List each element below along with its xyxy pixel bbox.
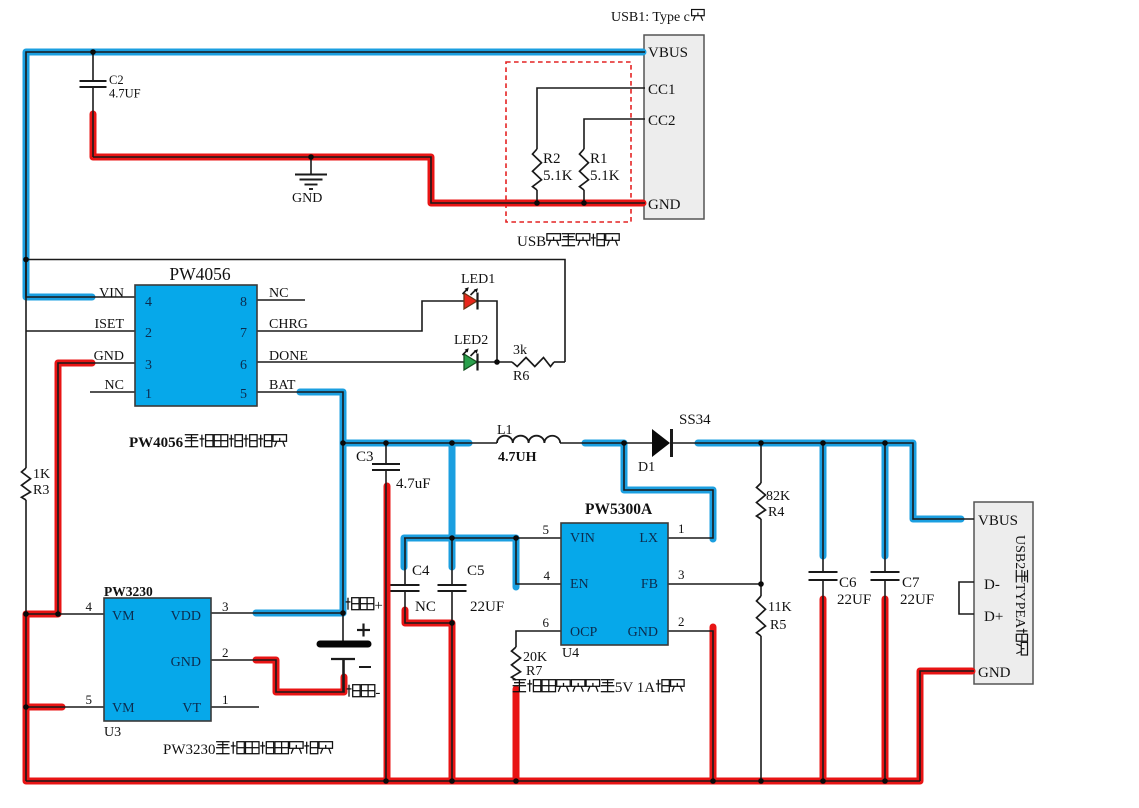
svg-text:C5: C5 [467,563,485,579]
label battery plus [347,598,349,610]
node rail U4GND [710,778,716,784]
wire R4 top lead [760,443,762,483]
svg-text:DONE: DONE [269,349,308,364]
svg-text:5V 1A: 5V 1A [615,680,655,696]
svg-text:PW3230: PW3230 [163,742,216,758]
svg-text:PW5300A: PW5300A [585,501,653,518]
ground symbol GND [295,174,327,176]
wire BAT net down to battery+ [257,392,343,641]
label battery minus [348,685,350,697]
wire C2 top lead [92,52,94,81]
capacitor C7 [871,571,900,573]
node C4 C5 gnd [449,620,455,626]
svg-text:CC2: CC2 [648,113,676,129]
node VM5 left [23,704,29,710]
svg-text:VDD: VDD [171,609,201,624]
resistor R4 82K [757,483,766,519]
svg-text:C2: C2 [109,73,124,87]
wire R3 bottom to rail [25,500,27,781]
wire main node line left of L1 [343,442,497,444]
svg-text:R1: R1 [590,151,608,167]
wire USB2 GND to rail [920,671,974,781]
node rail C7 [882,778,888,784]
node VM4 mid [55,611,61,617]
wire blue highlight L1 to D1 and down to LX [585,443,713,539]
wire VBUS blue highlight (USB1 to VIN) [26,52,643,297]
wire red highlight U3 GND jog to battery- [256,660,344,692]
svg-text:GND: GND [978,665,1011,681]
svg-text:VM: VM [112,609,135,624]
svg-text:+: + [374,598,382,614]
wire C6 bottom to rail [822,580,824,781]
wire GND symbol drop [310,157,312,174]
svg-text:NC: NC [269,286,288,301]
svg-text:R7: R7 [526,664,542,679]
svg-text:5: 5 [240,387,247,402]
node LED junction [494,359,500,365]
svg-text:SS34: SS34 [679,412,711,428]
svg-text:1: 1 [222,692,229,707]
svg-text:CC1: CC1 [648,82,676,98]
capacitor C4 [391,584,420,586]
node VM4 left [23,611,29,617]
resistor R5 11K [757,596,766,636]
wire U1 GND pin to left [58,363,135,614]
svg-text:R3: R3 [33,483,49,498]
resistor R3 1K [22,468,31,500]
node main BAT [340,440,346,446]
node FB [758,581,764,587]
wire U4 FB line [668,583,761,585]
wire U1 NC1 stub [90,391,135,393]
svg-text:GND: GND [171,655,201,670]
wire blue highlight C7 branch [882,443,889,556]
svg-text:PW3230: PW3230 [104,584,153,599]
svg-text:U3: U3 [104,725,121,740]
wire C5 bottom to rail [451,591,453,781]
wire CC2 to R1 [584,119,645,149]
svg-text:4.7uF: 4.7uF [396,476,431,492]
node ISET top link [23,257,29,263]
svg-text:C4: C4 [412,563,430,579]
wire C6 top lead [822,443,824,572]
svg-text:EN: EN [570,577,589,592]
resistor R1 5.1K [580,149,589,190]
svg-text:PW4056: PW4056 [129,435,184,451]
connector USB1 Type-C body [644,35,704,219]
wire U4 LX link [624,443,713,538]
svg-text:TYPEA: TYPEA [1012,583,1027,629]
svg-text:GND: GND [94,349,124,364]
svg-text:VM: VM [112,701,135,716]
svg-text:5: 5 [543,522,550,537]
capacitor C5 [438,584,467,586]
svg-text:4.7UF: 4.7UF [109,87,141,101]
svg-text:82K: 82K [766,489,790,504]
wire C4 top lead [404,538,406,585]
svg-text:C7: C7 [902,575,920,591]
wire red highlight C3 to GND rail [384,486,391,781]
svg-text:FB: FB [641,577,658,592]
wire GND red highlight main loop [26,363,972,781]
wire U4 GND to rail [668,631,713,781]
node C2 top [90,49,96,55]
svg-text:OCP: OCP [570,625,597,640]
svg-text:NC: NC [415,599,436,615]
wire DONE to LED2/R6 [257,361,512,363]
svg-text:GND: GND [648,197,681,213]
wire blue highlight VIN node C4/EN [404,538,516,587]
wire red highlight R7 to GND rail [513,689,520,781]
connector USB2 Type-A body [974,502,1033,684]
capacitor C6 [809,571,838,573]
svg-text:LED1: LED1 [461,272,495,287]
wire U3 VDD line [211,612,343,614]
svg-text:USB1: Type c: USB1: Type c [611,10,690,25]
wire blue highlight C5 branch [449,443,456,567]
node R4 top [758,440,764,446]
wire U3 VM5 pin line [26,706,104,708]
svg-text:USB: USB [517,234,546,250]
node R2 bottom [534,200,540,206]
svg-text:CHRG: CHRG [269,317,308,332]
svg-text:1K: 1K [33,467,50,482]
svg-text:VBUS: VBUS [978,513,1018,529]
wire battery- lead [342,659,344,692]
caption U4 circuit [513,679,527,681]
wire R1 bottom lead [583,190,585,203]
svg-text:C6: C6 [839,575,857,591]
wire R6 right lead [554,361,565,363]
wire C7 bottom to rail [884,580,886,781]
battery cell plates [320,641,368,648]
wire USB2 D- D+ bracket [959,582,974,614]
svg-text:C3: C3 [356,449,374,465]
wire BAT blue highlight (PW4056 BAT down to battery+) [300,392,343,613]
svg-text:R2: R2 [543,151,561,167]
svg-text:PW4056: PW4056 [169,264,231,284]
svg-text:ISET: ISET [94,317,124,332]
node rail C6 [820,778,826,784]
svg-text:VT: VT [182,701,201,716]
svg-text:VIN: VIN [570,531,595,546]
wire C3 top lead [385,443,387,464]
capacitor C2 [80,80,107,82]
wire GND bottom rail [26,780,920,782]
svg-text:NC: NC [105,378,124,393]
svg-text:5.1K: 5.1K [590,168,620,184]
wire CHRG to LED1 [257,301,497,362]
wire red highlight C7 to rail [882,599,889,781]
resistor R2 5.1K [533,149,542,190]
node battery plus [340,610,346,616]
svg-text:5: 5 [86,692,93,707]
svg-text:1: 1 [678,521,685,536]
svg-text:22UF: 22UF [837,592,871,608]
wire D1 to USB2 VBUS [672,443,974,519]
svg-text:6: 6 [543,615,550,630]
wire blue highlight C6 branch [820,443,827,556]
svg-text:4: 4 [544,568,551,583]
svg-text:4: 4 [86,599,93,614]
op-amp U4 PW5300A body [561,523,668,645]
svg-text:GND: GND [292,191,322,206]
wire ISET top link to R6 [26,260,565,363]
wire R4-R5 middle [760,519,762,596]
wire blue highlight D1 to USB2 VBUS [698,443,961,519]
wire CC1 to R2 [537,88,645,149]
wire U3 VM4 pin line [26,613,104,615]
dashed box USB CC resistors [506,62,631,222]
LED2 green [464,354,477,370]
wire U4 OCP to R7 [516,631,561,647]
wire C2 bottom lead to GND run [92,87,94,157]
svg-text:D+: D+ [984,609,1003,625]
svg-text:3: 3 [678,567,685,582]
svg-text:D-: D- [984,577,1000,593]
svg-text:GND: GND [628,625,658,640]
svg-text:VIN: VIN [99,286,124,301]
inductor L1 [497,436,560,443]
svg-text:3: 3 [145,358,152,373]
svg-text:R5: R5 [770,618,786,633]
wire R2 bottom lead [536,190,538,203]
svg-text:2: 2 [222,645,229,660]
svg-text:2: 2 [145,326,152,341]
node R1 bottom [581,200,587,206]
op-amp U3 PW3230 body [104,598,211,721]
wire U4 VIN line [404,537,561,539]
diode D1 SS34 [652,429,670,457]
node GND symbol [308,154,314,160]
svg-text:5.1K: 5.1K [543,168,573,184]
wire GND red highlight (C2 to USB1 GND) [93,114,643,203]
node VIN C5 [449,535,455,541]
node D1 anode [621,440,627,446]
svg-text:3k: 3k [513,343,527,358]
svg-text:BAT: BAT [269,378,296,393]
op-amp U1 PW4056 body [135,285,257,406]
svg-text:U4: U4 [562,646,579,661]
svg-text:R6: R6 [513,369,529,384]
wire red highlight C6 to rail [820,599,827,781]
svg-text:2: 2 [678,614,685,629]
svg-text:-: - [375,685,380,701]
wire C4 bottom lead [405,591,452,623]
svg-text:6: 6 [240,358,247,373]
node VIN EN [513,535,519,541]
svg-text:VBUS: VBUS [648,45,688,61]
wire C3 bottom to rail [385,471,387,781]
node C5 top [449,440,455,446]
wire U3 GND jog [211,659,344,692]
wire left vertical net (ISET/R3) [25,260,27,469]
wire VBUS net [26,52,645,297]
wire red highlight C4/C5 to GND rail [405,610,452,781]
node rail C5 [449,778,455,784]
svg-text:22UF: 22UF [470,599,504,615]
LED1 red [464,293,477,309]
wire R5 bottom to rail [760,636,762,781]
resistor R6 3k [512,358,554,367]
wire ISET pin [26,330,135,332]
resistor R7 20K [512,647,521,680]
svg-text:3: 3 [222,599,229,614]
wire red highlight VM5 stub [28,704,62,711]
svg-text:11K: 11K [768,600,792,615]
svg-text:1: 1 [145,387,152,402]
wire U3 VT stub [211,706,259,708]
node C3 top [383,440,389,446]
wire blue highlight VDD to battery+ [256,610,343,617]
svg-text:7: 7 [240,326,247,341]
wire L1 to D1 [560,442,652,444]
svg-text:4: 4 [145,295,152,310]
wire U4 EN link [516,538,561,584]
label USB2 title vertical [1012,535,1028,655]
wire U1 NC8 stub [257,299,305,301]
node rail R7 [513,778,519,784]
node rail C3 [383,778,389,784]
svg-text:R4: R4 [768,505,784,520]
node C7 top [882,440,888,446]
node C6 top [820,440,826,446]
svg-text:4.7UH: 4.7UH [498,450,537,465]
svg-text:USB2: USB2 [1012,535,1027,569]
wire C5 top lead [451,538,453,585]
svg-text:LED2: LED2 [454,333,488,348]
wire C7 top lead [884,443,886,572]
svg-text:22UF: 22UF [900,592,934,608]
svg-text:8: 8 [240,295,247,310]
wire GND run to USB1 [93,157,645,203]
capacitor C3 [372,463,400,465]
wire red highlight U4 GND to rail [710,627,717,781]
node rail R5 [758,778,764,784]
wire blue highlight node to L1 [343,440,469,447]
svg-text:L1: L1 [497,423,513,438]
svg-text:LX: LX [639,531,658,546]
svg-text:20K: 20K [523,650,547,665]
svg-text:D1: D1 [638,460,655,475]
